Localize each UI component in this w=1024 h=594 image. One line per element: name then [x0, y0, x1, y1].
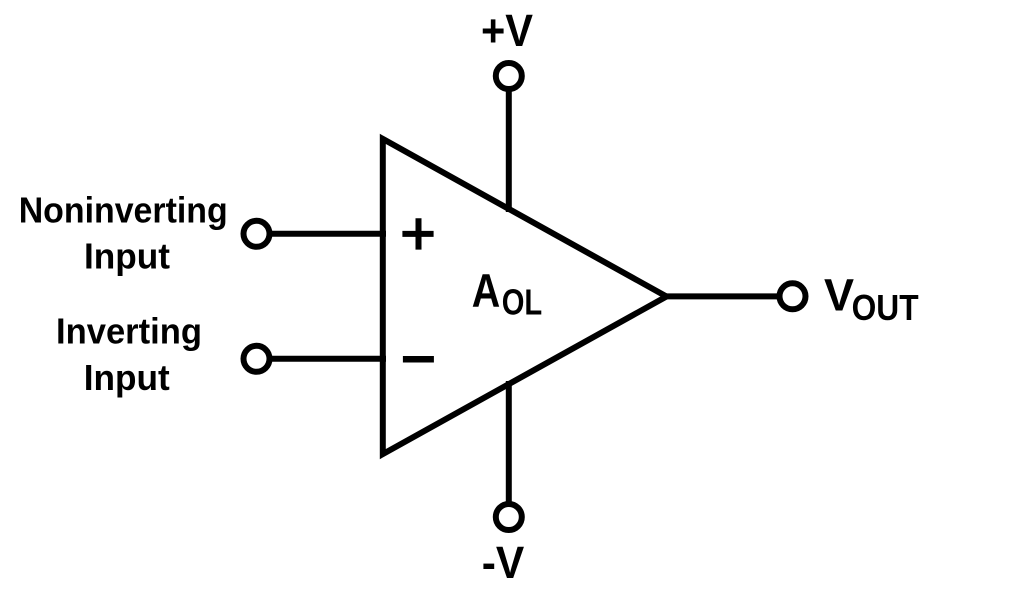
minus marker (inverting pin) — [403, 356, 434, 363]
svg-text:V: V — [824, 269, 854, 320]
svg-text:+V: +V — [481, 5, 533, 56]
terminal circle: +V — [496, 63, 522, 89]
svg-text:-V: -V — [482, 537, 525, 588]
wire: output — [662, 293, 778, 299]
svg-text:Input: Input — [84, 357, 170, 398]
svg-text:OUT: OUT — [852, 287, 919, 328]
op-amp U1 triangle — [383, 139, 667, 454]
plus marker (noninverting pin) — [402, 218, 433, 249]
wire: inverting input — [270, 356, 386, 362]
svg-text:Noninverting: Noninverting — [19, 190, 228, 231]
svg-text:Inverting: Inverting — [56, 310, 202, 351]
svg-text:OL: OL — [502, 281, 543, 322]
terminal circle: output — [780, 283, 806, 309]
wire: noninverting input — [270, 231, 386, 237]
terminal circle: noninverting input — [244, 221, 270, 247]
terminal circle: inverting input — [244, 346, 270, 372]
wire: +V supply — [506, 90, 512, 212]
svg-text:Input: Input — [84, 236, 170, 277]
svg-text:A: A — [472, 265, 501, 318]
wire: -V supply — [506, 381, 512, 503]
terminal circle: -V — [496, 504, 522, 530]
